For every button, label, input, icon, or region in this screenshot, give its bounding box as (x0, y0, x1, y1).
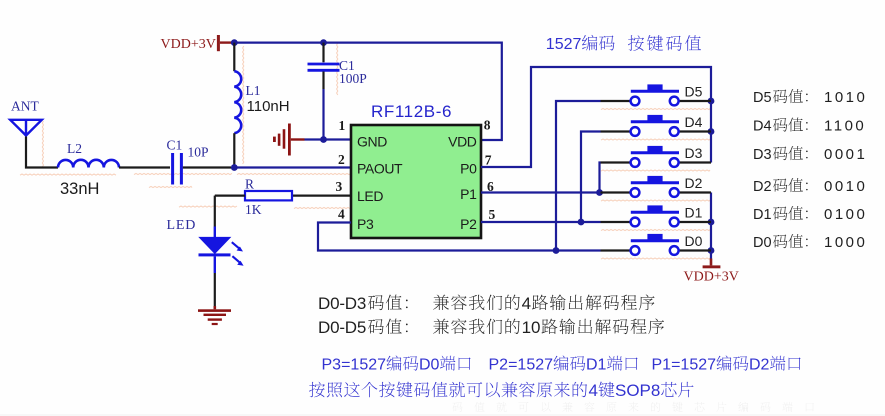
note: D4 code value row (753, 118, 866, 135)
wire P3 pin4 to D0 row (318, 223, 601, 251)
IC U1 RF112B-6 body (351, 125, 481, 238)
note: D5 code value row (753, 89, 867, 106)
svg-text:D0-D5: D0-D5 (318, 318, 366, 337)
junction P0 rail / D4 right (708, 128, 715, 135)
svg-text:1100: 1100 (824, 118, 866, 135)
svg-text:D0: D0 (685, 233, 703, 249)
svg-text:ANT: ANT (11, 99, 39, 114)
svg-text:VDD+3V: VDD+3V (684, 269, 739, 284)
inductor L2 33nH (horizontal) (58, 160, 170, 168)
svg-text:33nH: 33nH (60, 180, 99, 198)
svg-text:3: 3 (336, 179, 343, 194)
svg-text:PAOUT: PAOUT (357, 161, 403, 177)
svg-text:VDD+3V: VDD+3V (161, 37, 216, 52)
svg-text:P2: P2 (460, 216, 477, 232)
svg-text:1K: 1K (245, 202, 262, 217)
junction P1 riser (596, 189, 603, 196)
power port VDD+3V (bottom right) (703, 259, 721, 269)
svg-text:D1: D1 (685, 205, 703, 221)
inductor L1 110nH (vertical) (234, 43, 241, 168)
svg-text:1010: 1010 (824, 89, 867, 106)
svg-text:D1: D1 (753, 207, 772, 223)
capacitor C1 10P (173, 153, 231, 185)
svg-text:D2: D2 (685, 175, 703, 191)
svg-text:D4: D4 (753, 119, 772, 135)
svg-text:0010: 0010 (824, 178, 867, 195)
junction P3 riser / D0 row (553, 247, 560, 254)
svg-text:0001: 0001 (824, 146, 867, 163)
svg-text:LED: LED (357, 188, 383, 204)
wire P3 riser to D5 left (556, 101, 601, 251)
pushbutton D5 (601, 84, 712, 105)
wire P1 riser to D3 left (600, 163, 601, 193)
pushbutton D4 (601, 115, 712, 136)
svg-text:100P: 100P (339, 71, 367, 86)
svg-text:P3: P3 (357, 216, 374, 232)
svg-text:D2: D2 (753, 179, 772, 195)
svg-text:5: 5 (489, 207, 496, 222)
svg-text:1527: 1527 (546, 36, 582, 53)
svg-text:P0: P0 (460, 160, 477, 176)
svg-text:VDD: VDD (448, 133, 477, 149)
svg-text:10P: 10P (188, 145, 209, 160)
svg-text:2: 2 (338, 152, 345, 167)
note: D3 code value row (753, 146, 867, 163)
svg-text:D5: D5 (685, 84, 703, 100)
svg-text:110nH: 110nH (247, 98, 290, 115)
svg-text:R: R (245, 177, 254, 192)
svg-text:4: 4 (589, 381, 598, 400)
junction VDD rail / D0 right (708, 247, 715, 254)
svg-text:D1: D1 (586, 356, 607, 373)
wire P2 riser to D4 left (581, 132, 601, 223)
svg-text:D0-D3: D0-D3 (318, 294, 366, 313)
svg-text:1000: 1000 (824, 234, 867, 251)
pushbutton D2 (601, 176, 712, 197)
svg-text:D2: D2 (749, 356, 770, 373)
note: D0-D5 compat line (318, 318, 664, 337)
svg-text:D3: D3 (753, 147, 772, 163)
junction L1 bottom / PAOUT (231, 164, 238, 171)
wire VDD net: top rail to pin8 (233, 43, 502, 140)
note: D0 code value row (753, 234, 867, 251)
power ground symbol (pin 1) (273, 124, 305, 156)
junction C1(100P) bottom / pin1 (320, 136, 327, 143)
wire P0 pin7 up and over to right rail top (481, 67, 711, 167)
junction P0 rail / D5 right (708, 98, 715, 105)
svg-text:P1: P1 (460, 186, 477, 202)
svg-text:P3=1527: P3=1527 (322, 356, 387, 373)
resistor R 1K (215, 191, 351, 227)
note: P3/P2/P1 port mapping line (322, 355, 801, 373)
note: D2 code value row (753, 178, 867, 195)
wire ground to GND pin1 (305, 138, 352, 140)
svg-text:P2=1527: P2=1527 (489, 356, 554, 373)
svg-text:L1: L1 (246, 83, 261, 98)
svg-text:GND: GND (357, 133, 387, 149)
svg-text:C1: C1 (167, 137, 183, 152)
svg-text:D3: D3 (685, 145, 703, 161)
antenna ANT (10, 120, 58, 168)
junction at C1(100P) top (320, 39, 327, 46)
junction at L1 top (231, 39, 238, 46)
svg-text:8: 8 (484, 118, 491, 133)
svg-text:1: 1 (338, 118, 345, 133)
svg-text:4: 4 (338, 207, 345, 222)
ground symbol (below LED) (198, 306, 231, 325)
capacitor C1 100P (308, 43, 340, 140)
svg-text:D0: D0 (419, 356, 440, 373)
svg-text:LED: LED (167, 218, 197, 233)
svg-text:SOP8: SOP8 (615, 381, 660, 400)
note: 1527 encoding key-code title (546, 35, 701, 53)
wire P2 pin5 to D1 left (481, 221, 601, 223)
junction P2 riser (578, 219, 585, 226)
wire RF node to PAOUT pin2 (234, 166, 351, 168)
power port VDD+3V (top left) (161, 35, 233, 52)
pushbutton D0 (601, 234, 712, 255)
svg-text:0100: 0100 (824, 206, 867, 223)
LED D? light emitting diode (199, 227, 244, 307)
svg-text:RF112B-6: RF112B-6 (371, 102, 452, 121)
svg-text:L2: L2 (67, 141, 82, 156)
svg-text:4: 4 (522, 294, 531, 313)
note: D1 code value row (753, 206, 867, 223)
svg-text:D5: D5 (753, 90, 772, 106)
note: D0-D3 compat line (318, 294, 655, 313)
wire P1 pin6 to D2 left (481, 191, 601, 193)
svg-text:7: 7 (485, 153, 492, 168)
svg-text:P1=1527: P1=1527 (652, 356, 717, 373)
svg-text:D4: D4 (685, 114, 703, 130)
svg-text:D0: D0 (753, 235, 772, 251)
pushbutton D3 (601, 146, 712, 167)
svg-text:10: 10 (522, 318, 541, 337)
pushbutton D1 (601, 205, 712, 226)
wire VDD rail (D2..D0 right) (710, 193, 712, 259)
junction VDD rail / D1 right (708, 219, 715, 226)
note: compatibility sentence (309, 381, 693, 400)
